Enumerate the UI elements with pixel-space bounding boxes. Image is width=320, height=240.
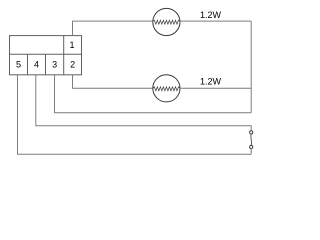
inline bullet connector upper [250, 131, 253, 134]
svg-text:2: 2 [70, 60, 75, 70]
wire between bullet connectors [250, 134, 253, 145]
lamp 2 [153, 75, 180, 102]
wire right bus vertical down to pin3 return [250, 21, 252, 113]
wire pin2 down and right to lamp 2 [73, 75, 153, 88]
wire pin4 down and right to connector stack [36, 75, 251, 131]
inline bullet connector lower [250, 145, 253, 148]
wire pin1 up and right to lamp 1 [73, 21, 153, 35]
lamp 1 [153, 8, 180, 35]
wire pin5 down and right along bottom [18, 75, 252, 154]
svg-text:1.2W: 1.2W [200, 76, 222, 86]
svg-text:5: 5 [16, 60, 21, 70]
svg-text:3: 3 [52, 60, 57, 70]
svg-text:1: 1 [69, 40, 74, 50]
wire lamp 1 right to bus corner [180, 20, 251, 22]
connector block body [10, 36, 82, 75]
wire pin3 down and right to bus bottom [55, 75, 252, 113]
wire lamp 2 right to bus [180, 87, 251, 89]
wire bullet connector to bottom bus [250, 149, 252, 155]
svg-text:4: 4 [34, 60, 39, 70]
svg-text:1.2W: 1.2W [200, 10, 222, 20]
